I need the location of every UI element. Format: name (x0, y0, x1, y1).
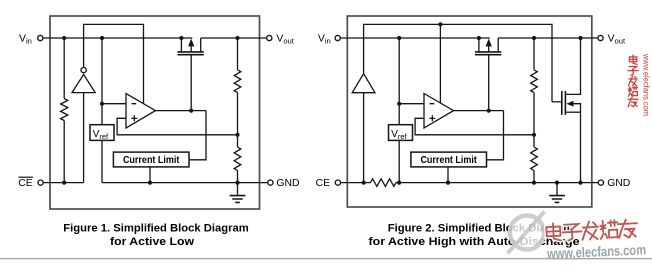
label op-amp plus (131, 115, 137, 121)
terminal Vout (left figure) (267, 35, 272, 40)
node Vin-Vref chain junction (100, 36, 104, 40)
svg-text:www.elecfans.com: www.elecfans.com (642, 53, 651, 116)
svg-text:for Active Low: for Active Low (110, 236, 194, 248)
buffer U6 (CE, active high) (352, 74, 375, 93)
terminal GND (left figure) (268, 180, 273, 185)
label op-amp minus (right) (430, 103, 435, 105)
inverter U3 (CE, active low) (72, 74, 95, 92)
Current Limit block (left) (113, 152, 189, 167)
wire output to current limit (right) (487, 111, 503, 160)
node discharge source rail junction (578, 181, 582, 185)
transistor Q3 auto-discharge NMOS (561, 91, 563, 115)
node R4 bottom junction (right) (532, 181, 536, 185)
label op-amp minus (132, 103, 137, 105)
wire buffer input from CE rail (363, 93, 365, 183)
terminal CE (right figure) (335, 180, 340, 185)
node inverting input junction (100, 102, 104, 106)
wire PMOS gate (190, 55, 192, 110)
wire Vref chain vertical (right) (398, 38, 400, 183)
wire Vout rail (right) (498, 37, 598, 39)
node feedback tap (right) (532, 133, 536, 137)
node inverting input junction (right) (397, 102, 401, 106)
node Vin-R1 junction (62, 36, 66, 40)
inverter bubble (81, 68, 86, 73)
node current limit rail junction (148, 181, 152, 185)
watermark vertical brand characters top right (629, 55, 637, 64)
wire GND segment of bottom rail (102, 182, 268, 184)
wire PMOS gate (right) (488, 55, 490, 110)
node buffer input rail junction (362, 181, 366, 185)
node gate junction (189, 109, 193, 113)
terminal Vout (right figure) (598, 35, 603, 40)
wire Vref chain vertical (101, 38, 103, 183)
node current limit rail junction (right) (446, 181, 450, 185)
wire inverting input (102, 103, 126, 105)
wire current limit to rail (149, 167, 151, 183)
ground (right figure) (556, 183, 558, 195)
figure 1 outer block box (50, 16, 260, 209)
node Vin-Vref chain junction (right) (397, 36, 401, 40)
svg-text:Current Limit: Current Limit (123, 155, 180, 166)
watermark brand characters bottom right (546, 219, 638, 242)
node PMOS source junction (right) (477, 36, 481, 40)
node PMOS source junction (179, 36, 183, 40)
wire current limit to rail (right) (447, 167, 449, 183)
Current Limit block (right) (411, 152, 487, 167)
wire non-inverting input to feedback tap (117, 118, 237, 135)
transistor Q1 pass PMOS (178, 52, 204, 55)
wire buffer output over the top (364, 24, 552, 101)
Vref box U5 (right) (389, 125, 413, 141)
svg-text:Figure 1. Simplified Block Dia: Figure 1. Simplified Block Diagram (63, 222, 249, 234)
terminal Vin (right figure) (335, 35, 340, 40)
wire Vout rail (201, 37, 267, 39)
wire enable drop to op-amp (439, 24, 441, 103)
node enable tap on top wire (438, 22, 442, 26)
svg-text:CE: CE (316, 178, 331, 189)
wire inverter output to op-amp enable (84, 24, 144, 103)
wire op-amp output (156, 110, 207, 112)
wire Vin rail (right) (340, 37, 489, 39)
node ground symbol junction (right) (555, 181, 559, 185)
terminal CE (left figure) (38, 180, 43, 185)
node R1 top junction (right) (532, 36, 536, 40)
ground (left figure) (237, 183, 239, 195)
figure 2 outer block box (347, 16, 592, 207)
node R1 top junction (235, 36, 239, 40)
svg-text:GND: GND (607, 178, 630, 189)
resistor R5 series CE (371, 179, 397, 187)
wire CE rail left of resistor (341, 182, 371, 184)
resistor pull-up (Vin to CE rail) (63, 40, 65, 99)
node Vref chain rail junction (right) (397, 181, 401, 185)
node feedback tap (235, 133, 239, 137)
wire inverter input from CE rail (83, 93, 85, 183)
svg-text:Current Limit: Current Limit (420, 155, 477, 166)
svg-text:GND: GND (276, 178, 299, 189)
watermark url bottom right (546, 241, 646, 261)
resistor R2 feedback bottom (237, 135, 239, 147)
resistor R3 feedback top (right) (533, 40, 535, 70)
node gate junction (right) (487, 109, 491, 113)
Vref box U2 (90, 125, 114, 141)
terminal GND (right figure) (598, 180, 603, 185)
resistor R1 feedback top (237, 40, 239, 70)
terminal Vin (left figure) (38, 35, 43, 40)
node R2 bottom junction (235, 181, 239, 185)
node discharge drain junction (578, 36, 582, 40)
wire inverting input (right) (399, 103, 424, 105)
label op-amp plus (right) (429, 115, 435, 121)
watermark logo circle bottom right (508, 212, 545, 254)
transistor Q2 pass PMOS (right) (475, 52, 501, 55)
op-amp U4 (right) (424, 94, 454, 129)
op-amp U1 (126, 94, 156, 129)
wire output to current limit (190, 111, 206, 160)
wire Vin rail (43, 37, 192, 39)
node pull-up resistor rail junction (62, 181, 66, 185)
svg-text:CE: CE (18, 178, 33, 189)
resistor R4 feedback bottom (right) (533, 135, 535, 147)
wire CE segment of bottom rail (43, 182, 83, 184)
wire non-inverting input to feedback tap (right) (415, 118, 534, 135)
wire op-amp output (right) (454, 110, 504, 112)
bottom separator rule (0, 258, 652, 260)
wire bottom rail to GND (right) (396, 182, 598, 184)
